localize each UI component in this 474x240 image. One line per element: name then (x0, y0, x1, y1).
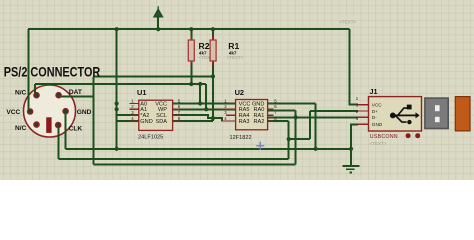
wire riser to U2 RA0 (295, 110, 297, 164)
wire PS/2 GND pin drop (65, 114, 67, 149)
wire R1 top lead (212, 29, 214, 40)
pin stub U1.2 A1 (130, 108, 139, 110)
indicator dot left (406, 133, 411, 138)
USB trident icon (390, 105, 420, 125)
wire row SDA U1 to R1 lead (173, 120, 213, 122)
svg-text:GND: GND (77, 109, 92, 116)
wire U2 GND drop to ground rail (315, 104, 317, 149)
svg-text:N/C: N/C (15, 125, 27, 132)
wire U2 RA1 row to J1 D- (268, 116, 359, 118)
wire R2 top lead (190, 29, 192, 40)
svg-text:GND: GND (372, 122, 383, 127)
svg-text:N/C: N/C (15, 89, 27, 96)
svg-text:<TEXT>: <TEXT> (227, 55, 244, 60)
svg-text:PS/2 CONNECTOR: PS/2 CONNECTOR (4, 64, 101, 80)
wire U2 GND row (268, 103, 316, 105)
USB plug orange cap (455, 97, 470, 131)
wire bottom ground rail (66, 148, 351, 150)
wire net B corner down to U1 WP row (205, 84, 207, 109)
wire row U1 VCC to U2 VCC (173, 103, 236, 105)
wire PS/2 CLK pin drop (57, 128, 59, 159)
svg-text:U1: U1 (137, 88, 146, 97)
pin stub J1.4 GND (358, 123, 369, 125)
svg-text:DAT: DAT (69, 89, 82, 96)
junction RA0 link on RA1 row (294, 115, 298, 119)
wire D+ line to J1 (310, 110, 358, 112)
junction VCC drop on net B (198, 82, 202, 86)
svg-text:CLK: CLK (69, 126, 83, 133)
ground (342, 166, 359, 173)
pin stub U1.1 A0 (130, 103, 139, 105)
pin stub J1.3 D+ (358, 110, 369, 112)
svg-text:VCC: VCC (6, 109, 20, 116)
pin stub U2.8 GND (268, 103, 274, 105)
pin stub U1.3 A2 (130, 114, 139, 116)
wire drop to U1 VCC row (199, 84, 201, 104)
svg-text:RA3: RA3 (239, 119, 250, 125)
pin stub U1.7 WP (173, 108, 179, 110)
junction A0 riser on rail (115, 27, 119, 31)
pin stub U1.4 GND (130, 120, 139, 122)
junction riser on ground rail (115, 147, 119, 151)
svg-text:USBCONN: USBCONN (370, 134, 398, 140)
svg-text:SDA: SDA (155, 119, 167, 125)
wire D+ link horizontal (289, 138, 310, 140)
USB shell contact lower (435, 117, 440, 122)
junction D+ link (287, 137, 291, 141)
wire PS/2 top-left pin riser (34, 84, 36, 94)
pin stub U1.8 VCC (173, 103, 179, 105)
IC U1 24LF1025 body (130, 88, 181, 141)
svg-text:U2: U2 (235, 88, 244, 97)
pin stub U1.6 SCL (173, 114, 179, 116)
wire VCC top rail (28, 28, 350, 30)
connector J2 PS/2 body circle (24, 85, 76, 137)
junction U1 A1 row (115, 107, 119, 111)
junction U1 A0 row (115, 101, 119, 105)
junction R2 on net B (189, 82, 193, 86)
svg-text:<TEXT>: <TEXT> (339, 20, 356, 25)
wire riser to U2 RA2 (288, 121, 290, 159)
svg-text:GND: GND (140, 119, 152, 125)
junction J1 GND on ground rail (349, 147, 353, 151)
wire R2 bottom lead to node B (190, 61, 192, 84)
pin stub U2.1 VCC (221, 103, 236, 105)
svg-text:J1: J1 (370, 87, 378, 96)
pin stub U2.2 RA5 (221, 108, 236, 110)
wire bottom rail DAT net (93, 164, 295, 166)
wire net A horizontal (93, 75, 213, 77)
pin stub U2.4 RA3 (221, 120, 236, 122)
wire power terminal stem (157, 17, 159, 29)
power terminal VCC arrow (154, 6, 163, 17)
wire U1 pin3 row link (117, 114, 139, 116)
junction U1 WP row (204, 107, 208, 111)
svg-text:RA2: RA2 (254, 119, 265, 125)
pin stub U2.5 RA2 (268, 120, 274, 122)
pin stub U1.5 SDA (173, 120, 179, 122)
PS/2 pin bottom-left N/C (34, 122, 39, 127)
wire VCC drop to PS/2 VCC pin (27, 29, 29, 109)
junction R1 on net A (211, 74, 215, 78)
PS/2 pin top-left N/C (34, 93, 39, 98)
wire row SCL from U1 with jog to node (173, 115, 223, 121)
svg-text:D+: D+ (372, 109, 378, 114)
wire VCC riser to U1 A0/A1 (116, 29, 118, 149)
wire J1 GND to ground symbol (351, 124, 358, 165)
pin stub U2.3 RA4 (226, 114, 236, 116)
svg-text:24LF1025: 24LF1025 (138, 135, 163, 141)
wire bottom rail CLK net (58, 158, 288, 160)
pin stub J1.2 D- (358, 116, 369, 118)
junction R2 on rail (189, 27, 193, 31)
PS/2 pin mid-left VCC (28, 109, 33, 114)
USB shell contact upper (435, 105, 440, 111)
wire U2 RA2 row (268, 120, 289, 122)
svg-text:D-: D- (372, 115, 377, 120)
wire R1 bottom lead vertical to SDA row (212, 61, 214, 121)
connector J1 USBCONN body (356, 87, 470, 146)
svg-text:12F1822: 12F1822 (230, 135, 252, 141)
junction U1 VCC row (198, 101, 202, 105)
wire J1 VCC drop from rail (349, 29, 358, 104)
PS/2 pin top-right DAT (56, 93, 61, 98)
PS/2 pin mid-right GND (63, 109, 68, 114)
pin stub J1.1 VCC (358, 104, 369, 106)
resistor R2 (188, 36, 194, 65)
junction U2 GND on ground rail (314, 147, 318, 151)
origin marker cross (256, 142, 264, 150)
wire U1 pin4 row link (117, 120, 139, 122)
svg-text:VCC: VCC (372, 102, 383, 107)
pin stub U2.6 RA1 (268, 114, 274, 116)
junction R1 on rail (211, 27, 215, 31)
resistor R1 (210, 36, 216, 65)
USB plug metal shell (425, 98, 448, 128)
wire net B horizontal from PS/2 DAT pin (35, 83, 206, 85)
wire U2 RA0 row (268, 109, 296, 111)
indicator dot right (415, 133, 420, 138)
junction power stem on rail (156, 27, 160, 31)
IC U2 12F1822 body (221, 88, 277, 141)
svg-text:<TEXT>: <TEXT> (370, 141, 387, 146)
wire row U1 WP to U2 RA5 (173, 108, 236, 110)
junction R1 lead on SCL node (211, 116, 215, 120)
wire D+ link riser (309, 111, 311, 139)
wire PS/2 DAT pin stub horizontal (61, 95, 93, 97)
wire DAT riser (92, 76, 94, 164)
connector PS/2 key bar (46, 117, 51, 133)
PS/2 pin bottom-right CLK (56, 122, 61, 127)
pin stub U2.7 RA0 (268, 108, 274, 110)
